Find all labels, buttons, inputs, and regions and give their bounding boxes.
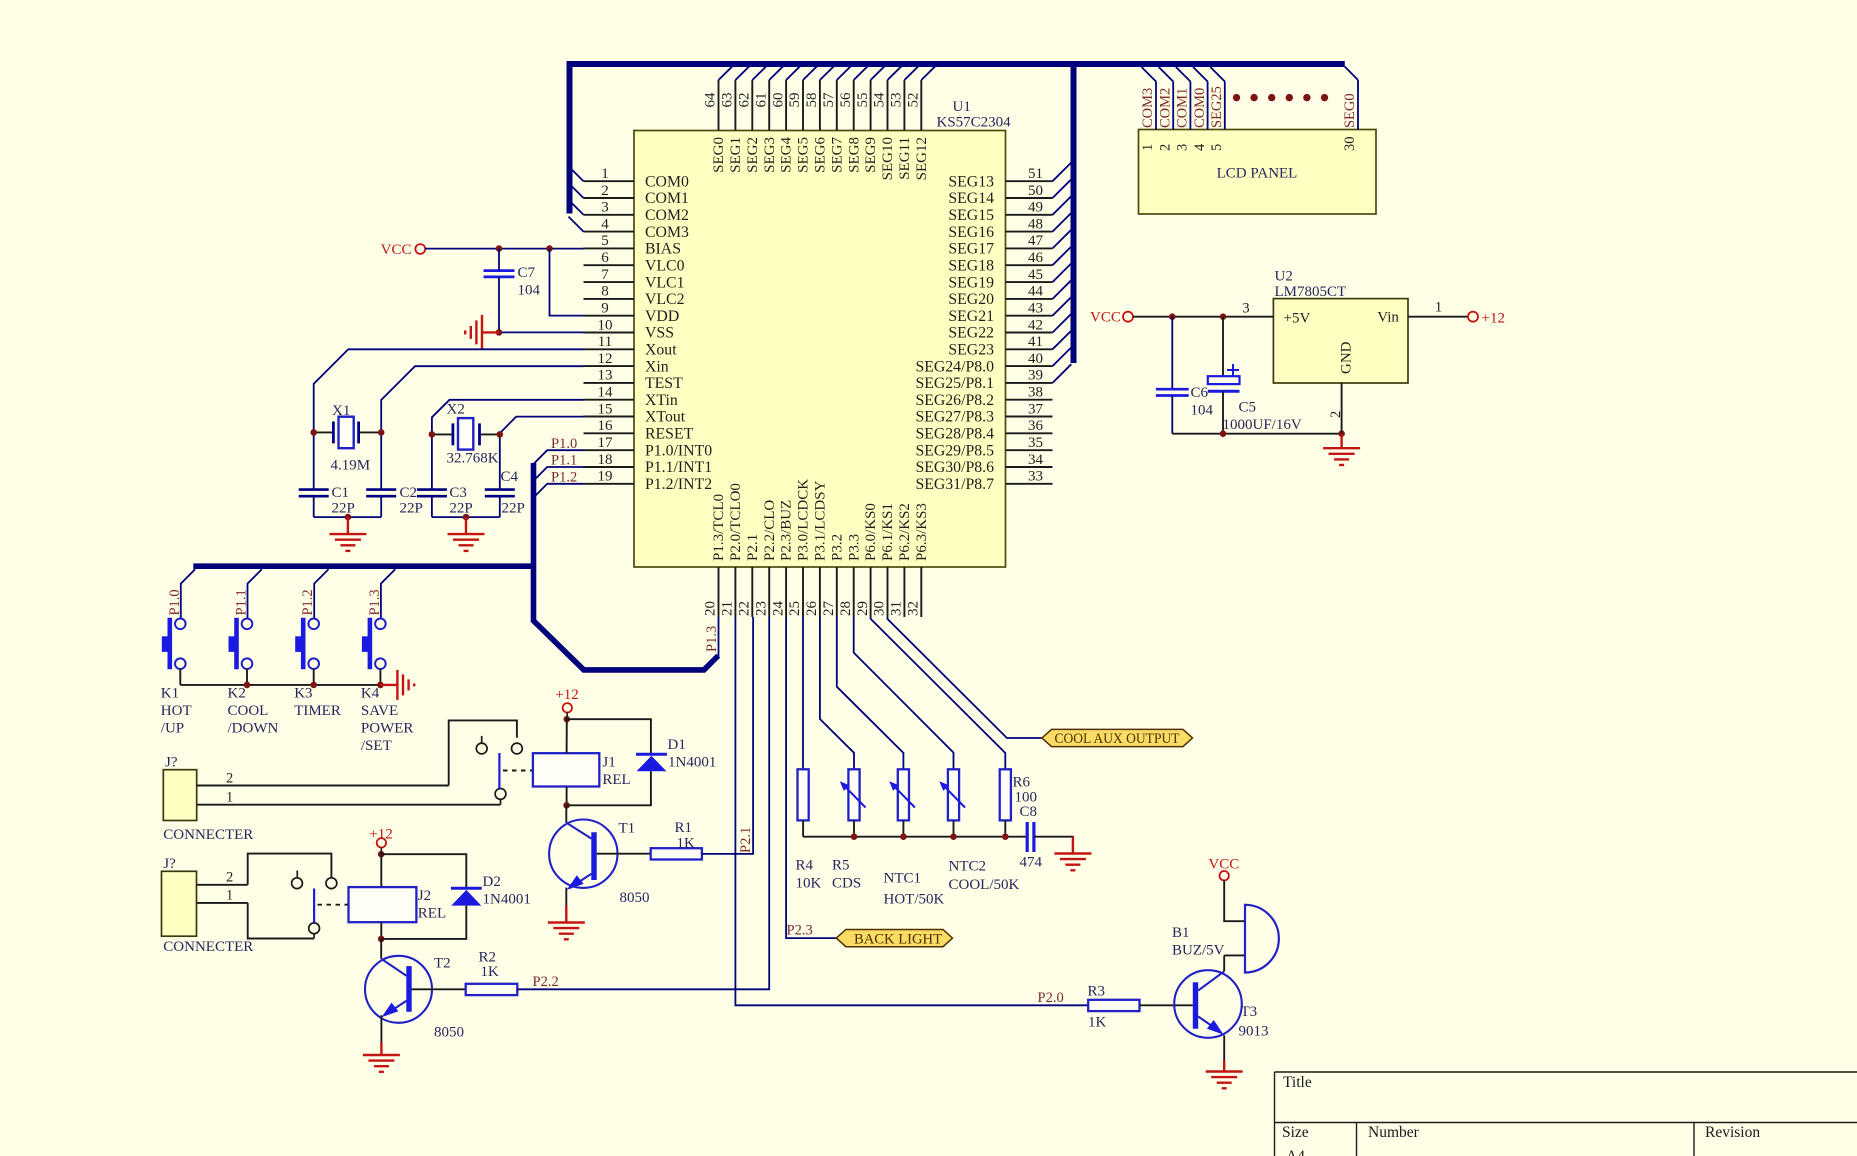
wire buzzer lower lead	[1224, 954, 1245, 956]
svg-text:SEG12: SEG12	[914, 137, 930, 180]
ground at T1	[548, 906, 585, 940]
svg-text:VCC: VCC	[381, 242, 412, 258]
svg-text:COM1: COM1	[1175, 88, 1191, 128]
wire T1 base to R1	[597, 853, 651, 855]
LCD pin 30 wire SEG0	[1357, 80, 1359, 130]
U1 pin 35 SEG29/P8.5	[1006, 449, 1053, 451]
svg-text:42: 42	[1028, 317, 1043, 333]
svg-text:15: 15	[598, 401, 613, 417]
svg-text:COM2: COM2	[645, 207, 689, 224]
svg-text:SEG26/P8.2: SEG26/P8.2	[915, 392, 994, 409]
svg-text:P2.1: P2.1	[745, 534, 761, 561]
svg-text:COM3: COM3	[645, 224, 689, 241]
svg-text:P1.1: P1.1	[234, 589, 250, 615]
svg-text:C7: C7	[518, 265, 536, 281]
wire T1 emitter to ground	[565, 888, 567, 906]
switch K1 push-button	[175, 619, 186, 630]
svg-text:50: 50	[1028, 183, 1043, 199]
U1 pin 48 SEG16	[1006, 231, 1053, 233]
svg-text:P2.2: P2.2	[533, 974, 559, 990]
U1 pin 47 SEG17	[1006, 247, 1053, 249]
svg-text:9013: 9013	[1239, 1024, 1269, 1040]
svg-text:1K: 1K	[677, 836, 696, 852]
diode D2 1N4001	[451, 887, 482, 890]
wire T1 collector	[565, 805, 567, 822]
wire pin 57 diagonal to bus	[837, 66, 851, 80]
svg-text:Size: Size	[1282, 1124, 1309, 1141]
wire R2 to P2.2 pin23	[517, 617, 769, 989]
U1 pin 26 P3.1/LCDSY	[819, 567, 821, 617]
wire COM3 diagonal to bus	[569, 217, 584, 232]
svg-text:SEG7: SEG7	[829, 137, 845, 173]
svg-text:VCC: VCC	[1090, 310, 1121, 326]
junction K3 common	[310, 682, 317, 689]
svg-text:SEG0: SEG0	[711, 137, 727, 173]
thermistor NTC1	[898, 769, 909, 820]
svg-text:19: 19	[598, 469, 613, 485]
svg-text:J?: J?	[163, 856, 176, 872]
wire SEG pin 39 diagonal to bus	[1053, 364, 1072, 383]
port flag COOL AUX OUTPUT	[1042, 729, 1193, 746]
svg-text:LCD PANEL: LCD PANEL	[1217, 166, 1298, 182]
svg-text:SEG27/P8.3: SEG27/P8.3	[915, 409, 994, 426]
svg-text:2: 2	[1328, 411, 1344, 418]
U1 pin 3 COM2	[584, 214, 635, 216]
voltage regulator U2 LM7805CT body	[1273, 299, 1408, 383]
svg-text:COOL AUX OUTPUT: COOL AUX OUTPUT	[1055, 731, 1180, 747]
svg-text:474: 474	[1020, 855, 1043, 871]
wire COM2 diagonal to bus	[569, 200, 584, 215]
svg-text:J?: J?	[165, 755, 178, 771]
wire P1.0 to bus	[534, 450, 584, 464]
svg-text:54: 54	[872, 92, 888, 108]
svg-text:1N4001: 1N4001	[668, 755, 716, 771]
svg-text:59: 59	[787, 93, 803, 108]
svg-text:RESET: RESET	[645, 426, 694, 443]
U1 pin 44 SEG20	[1006, 298, 1053, 300]
svg-text:8: 8	[601, 284, 609, 300]
svg-text:31: 31	[889, 601, 905, 616]
ground at C1 C2	[329, 517, 366, 551]
svg-text:K2: K2	[228, 686, 246, 702]
svg-text:KS57C2304: KS57C2304	[937, 115, 1012, 131]
capacitor C4	[485, 488, 515, 491]
svg-text:24: 24	[770, 601, 786, 617]
svg-text:P3.3: P3.3	[846, 534, 862, 561]
wire sensor 2 bottom lead	[853, 820, 855, 836]
svg-text:U1: U1	[953, 99, 971, 115]
svg-text:P6.2/KS2: P6.2/KS2	[897, 503, 913, 561]
wire pin28 to NTC2	[854, 617, 954, 769]
title block frame	[1275, 1072, 1857, 1156]
wire bus stub to K1	[181, 569, 195, 618]
relay J1 armature	[498, 753, 500, 789]
wire XTin	[432, 400, 584, 490]
svg-text:38: 38	[1028, 385, 1043, 401]
wire pin 62 diagonal to bus	[752, 66, 766, 80]
wire J2 coil bottom	[380, 922, 382, 939]
wire XTout	[500, 417, 584, 490]
svg-text:26: 26	[804, 601, 820, 617]
svg-text:R1: R1	[675, 820, 693, 836]
U1 pin 39 SEG25/P8.1	[1006, 382, 1053, 384]
svg-text:T1: T1	[619, 821, 636, 837]
switch contact J2 upper right	[326, 878, 337, 889]
wire +12 to D1 top	[567, 719, 651, 754]
wire sensor 1 bottom lead	[802, 820, 804, 836]
svg-text:23: 23	[753, 601, 769, 616]
svg-text:BIAS: BIAS	[645, 241, 681, 258]
svg-text:1K: 1K	[481, 964, 500, 980]
svg-text:SAVE: SAVE	[361, 703, 398, 719]
svg-text:GND: GND	[1339, 341, 1355, 374]
U1 pin 61 SEG3	[768, 80, 770, 131]
U1 pin 29 P6.0/KS0	[870, 567, 872, 617]
U1 pin 13 TEST	[584, 382, 635, 384]
wire bus stub to K4	[381, 569, 395, 618]
svg-text:104: 104	[1191, 403, 1214, 419]
junction C3-C4 ground	[463, 514, 470, 521]
svg-text:SEG3: SEG3	[762, 137, 778, 173]
wire VCC to BIAS pin	[425, 248, 583, 250]
svg-text:45: 45	[1028, 267, 1043, 283]
wire SEG pin 42 diagonal to bus	[1053, 314, 1072, 333]
bus top horizontal	[567, 61, 1345, 67]
svg-text:14: 14	[598, 385, 614, 401]
svg-text:COOL: COOL	[228, 703, 269, 719]
wire sensor 5 bottom lead	[1004, 820, 1006, 836]
svg-text:2: 2	[601, 183, 609, 199]
wire VDD branch	[550, 249, 584, 316]
svg-text:4.19M: 4.19M	[331, 458, 371, 474]
svg-text:COM0: COM0	[1192, 88, 1208, 128]
ground at VSS	[465, 315, 499, 350]
capacitor C1	[299, 488, 329, 491]
svg-text:U2: U2	[1275, 269, 1293, 285]
svg-text:P6.0/KS0: P6.0/KS0	[863, 503, 879, 561]
resistor R6 100	[1000, 769, 1011, 820]
svg-text:18: 18	[598, 452, 613, 468]
svg-text:VSS: VSS	[645, 325, 674, 342]
svg-text:T3: T3	[1241, 1004, 1258, 1020]
svg-text:SEG8: SEG8	[846, 137, 862, 173]
wire P1.1 to bus	[534, 467, 584, 481]
junction J2 bottom	[378, 936, 385, 943]
wire pin 58 diagonal to bus	[820, 66, 834, 80]
thermistor NTC2	[948, 769, 959, 820]
junction at C5	[1220, 313, 1227, 320]
U1 pin 41 SEG23	[1006, 348, 1053, 350]
wire pin26 to R5	[820, 617, 854, 769]
svg-text:3: 3	[1175, 144, 1191, 151]
svg-text:43: 43	[1028, 301, 1043, 317]
junction X1 right	[378, 429, 385, 436]
power port +12 at U2	[1468, 312, 1478, 322]
capacitor C6 104	[1171, 317, 1173, 390]
svg-text:SEG6: SEG6	[813, 137, 829, 173]
svg-text:R4: R4	[796, 858, 814, 874]
svg-text:21: 21	[720, 601, 736, 616]
svg-text:P1.2/INT2: P1.2/INT2	[645, 476, 712, 493]
svg-text:XTout: XTout	[645, 409, 686, 426]
wire T2 collector	[380, 939, 382, 959]
svg-text:SEG17: SEG17	[948, 241, 994, 258]
svg-text:Xout: Xout	[645, 342, 677, 359]
U1 pin 5 BIAS	[584, 247, 635, 249]
svg-text:+12: +12	[369, 827, 392, 843]
J? lower pin 1	[197, 902, 248, 904]
svg-text:44: 44	[1028, 284, 1044, 300]
junction +12 J1	[564, 716, 571, 723]
svg-text:4: 4	[601, 216, 609, 232]
svg-text:R3: R3	[1088, 984, 1106, 1000]
svg-text:REL: REL	[418, 906, 446, 922]
svg-text:4: 4	[1192, 143, 1208, 151]
svg-text:SEG24/P8.0: SEG24/P8.0	[915, 358, 994, 375]
svg-text:60: 60	[770, 93, 786, 108]
svg-text:Revision: Revision	[1705, 1124, 1760, 1141]
svg-text:10K: 10K	[796, 875, 822, 891]
svg-text:P2.2/CLO: P2.2/CLO	[762, 500, 778, 561]
svg-text:+12: +12	[555, 687, 578, 703]
svg-text:+12: +12	[1482, 311, 1505, 327]
svg-text:3: 3	[1242, 301, 1249, 317]
svg-text:COM1: COM1	[645, 190, 689, 207]
svg-text:C2: C2	[400, 485, 418, 501]
crystal X1	[314, 431, 334, 433]
svg-text:CDS: CDS	[832, 875, 861, 891]
svg-text:P1.2: P1.2	[300, 589, 316, 615]
svg-text:HOT/50K: HOT/50K	[884, 892, 945, 908]
svg-text:12: 12	[598, 351, 613, 367]
wire K2 bottom	[246, 669, 248, 685]
U1 pin 21 P2.0/TCLO0	[734, 567, 736, 617]
wire SEG pin 44 diagonal to bus	[1053, 280, 1072, 299]
diode D1 1N4001	[636, 753, 667, 756]
svg-text:P1.3/TCL0: P1.3/TCL0	[711, 494, 727, 561]
ellipsis dots between LCD pins	[1233, 94, 1240, 101]
svg-text:SEG1: SEG1	[728, 137, 744, 173]
svg-text:VDD: VDD	[645, 308, 679, 325]
svg-text:BACK LIGHT: BACK LIGHT	[854, 931, 942, 947]
svg-text:COOL/50K: COOL/50K	[949, 877, 1020, 893]
wire COM0 diagonal to bus	[569, 166, 584, 181]
svg-text:6: 6	[601, 250, 609, 266]
svg-text:D2: D2	[483, 874, 501, 890]
wire pin 54 diagonal to bus	[888, 66, 902, 80]
U1 pin 7 VLC1	[584, 281, 635, 283]
junction at VDD branch	[546, 245, 553, 252]
wire Xin	[381, 366, 583, 489]
U1 pin 42 SEG22	[1006, 332, 1053, 334]
resistor R3 1K	[1088, 1000, 1139, 1011]
svg-text:+5V: +5V	[1284, 311, 1311, 327]
svg-text:Title: Title	[1283, 1074, 1312, 1091]
svg-text:32.768K: 32.768K	[447, 451, 499, 467]
wire K3 bottom	[313, 669, 315, 685]
switch K3 push-button	[308, 619, 319, 630]
wire P1.2 to bus	[534, 484, 584, 498]
svg-text:P2.3/BUZ: P2.3/BUZ	[779, 500, 795, 561]
junction X2 right	[497, 431, 504, 438]
svg-text:SEG18: SEG18	[948, 257, 994, 274]
svg-text:SEG13: SEG13	[948, 173, 994, 190]
LCD pin 3 wire	[1189, 82, 1191, 130]
svg-text:SEG28/P8.4: SEG28/P8.4	[915, 426, 994, 443]
wire SEG pin 45 diagonal to bus	[1053, 263, 1072, 282]
U1 pin 1 COM0	[584, 180, 635, 182]
svg-text:SEG16: SEG16	[948, 224, 994, 241]
svg-text:C4: C4	[501, 469, 519, 485]
wire K1 bottom	[179, 669, 181, 685]
U1 pin 17 P1.0/INT0	[584, 449, 635, 451]
svg-text:VCC: VCC	[1208, 857, 1239, 873]
svg-text:22P: 22P	[502, 500, 525, 516]
svg-text:P1.1: P1.1	[551, 453, 577, 469]
svg-text:1N4001: 1N4001	[483, 892, 531, 908]
port flag BACK LIGHT	[836, 930, 952, 947]
svg-text:SEG0: SEG0	[1342, 93, 1358, 128]
svg-text:5: 5	[1209, 144, 1225, 151]
svg-text:HOT: HOT	[161, 703, 192, 719]
connector J? upper	[163, 770, 196, 821]
svg-text:CONNECTER: CONNECTER	[163, 827, 253, 843]
svg-text:33: 33	[1028, 469, 1043, 485]
svg-text:36: 36	[1028, 418, 1044, 434]
connector J? lower	[162, 871, 197, 936]
junction J1 coil bottom	[563, 802, 570, 809]
LCD pin 1 wire	[1155, 82, 1157, 130]
svg-text:C1: C1	[332, 485, 350, 501]
svg-text:SEG11: SEG11	[897, 137, 913, 180]
U1 pin 19 P1.2/INT2	[584, 483, 635, 485]
junction at VSS ground	[496, 329, 503, 336]
U1 pin 2 COM1	[584, 197, 635, 199]
switch contact J2 upper left	[292, 878, 303, 889]
svg-text:41: 41	[1028, 334, 1043, 350]
U1 pin 49 SEG15	[1006, 214, 1053, 216]
svg-text:VLC0: VLC0	[645, 257, 685, 274]
svg-text:SEG14: SEG14	[948, 190, 994, 207]
svg-text:J1: J1	[602, 755, 615, 771]
ground at T2	[363, 1042, 400, 1072]
svg-text:D1: D1	[668, 737, 686, 753]
transistor T3 9013	[1174, 970, 1242, 1038]
svg-text:T2: T2	[434, 956, 451, 972]
svg-text:22P: 22P	[332, 500, 355, 516]
svg-text:P1.3: P1.3	[704, 626, 720, 652]
wire J2 contact lower path	[248, 903, 314, 939]
J? upper pin 2	[197, 785, 449, 787]
svg-text:SEG25/P8.1: SEG25/P8.1	[915, 375, 994, 392]
svg-text:C3: C3	[449, 485, 467, 501]
transistor T2 8050	[365, 956, 432, 1023]
LCD pin 5 wire	[1224, 82, 1226, 130]
svg-text:22: 22	[737, 601, 753, 616]
svg-text:K4: K4	[361, 686, 380, 702]
U1 pin 45 SEG19	[1006, 281, 1053, 283]
U1 pin 64 SEG0	[718, 80, 720, 131]
svg-text:NTC2: NTC2	[949, 859, 987, 875]
wire pin25 to R4	[802, 617, 804, 769]
svg-text:POWER: POWER	[361, 721, 414, 737]
wire R3 to T3 base	[1140, 1004, 1193, 1006]
svg-text:/SET: /SET	[361, 738, 392, 754]
svg-text:64: 64	[703, 92, 719, 108]
svg-text:35: 35	[1028, 435, 1043, 451]
U1 pin 53 SEG11	[903, 80, 905, 131]
svg-text:1: 1	[1435, 300, 1442, 316]
wire C1-C2 ground link	[314, 516, 382, 518]
U1 pin 46 SEG18	[1006, 264, 1053, 266]
U1 pin 59 SEG5	[802, 80, 804, 131]
svg-text:SEG5: SEG5	[796, 137, 812, 173]
capacitor C3	[417, 488, 447, 491]
svg-text:P2.3: P2.3	[787, 923, 813, 939]
svg-text:51: 51	[1028, 166, 1043, 182]
svg-text:55: 55	[855, 93, 871, 108]
svg-text:P6.3/KS3: P6.3/KS3	[914, 503, 930, 561]
svg-text:SEG9: SEG9	[863, 137, 879, 173]
U1 pin 27 P3.2	[836, 567, 838, 617]
U1 pin 22 P2.1	[751, 567, 753, 617]
svg-text:K1: K1	[161, 686, 179, 702]
LCD pin 2 wire	[1172, 82, 1174, 130]
wire +12 to D2 top	[381, 854, 466, 888]
svg-text:R5: R5	[832, 858, 850, 874]
ground at C8	[1054, 837, 1091, 871]
U1 pin 52 SEG12	[920, 80, 922, 131]
wire J1 coil bottom	[566, 787, 568, 806]
U1 pin 40 SEG24/P8.0	[1006, 365, 1053, 367]
junction at C7 top	[496, 245, 503, 252]
wire SEG pin 41 diagonal to bus	[1053, 331, 1072, 350]
U1 pin 20 P1.3/TCL0	[718, 567, 720, 617]
svg-text:B1: B1	[1172, 925, 1190, 941]
junction K4 common	[377, 682, 384, 689]
wire bus stub to K3	[314, 569, 328, 618]
svg-text:X2: X2	[447, 402, 465, 418]
svg-text:30: 30	[1342, 137, 1358, 152]
svg-text:SEG2: SEG2	[745, 137, 761, 173]
relay J2 actuation dashed link	[318, 904, 349, 906]
wire COM1 diagonal to bus	[569, 183, 584, 198]
svg-text:X1: X1	[332, 403, 350, 419]
junction C5 ground rail	[1220, 430, 1227, 437]
svg-text:TEST: TEST	[645, 375, 683, 392]
junction NTC1 common	[900, 833, 907, 840]
svg-text:SEG19: SEG19	[948, 274, 994, 291]
capacitor C7	[484, 269, 515, 272]
svg-text:BUZ/5V: BUZ/5V	[1172, 943, 1225, 959]
svg-text:P2.1: P2.1	[738, 827, 754, 853]
switch contact J2 lower	[309, 923, 320, 934]
svg-text:C8: C8	[1020, 804, 1038, 820]
svg-text:1000UF/16V: 1000UF/16V	[1223, 417, 1302, 433]
U1 pin 9 VDD	[584, 315, 635, 317]
svg-text:34: 34	[1028, 452, 1044, 468]
wire pin27 to NTC1	[837, 617, 904, 769]
svg-text:61: 61	[753, 93, 769, 108]
wire T2 emitter to ground	[380, 1015, 382, 1042]
U1 pin 54 SEG10	[887, 80, 889, 131]
svg-text:53: 53	[889, 93, 905, 108]
svg-text:/DOWN: /DOWN	[228, 721, 279, 737]
svg-text:SEG30/P8.6: SEG30/P8.6	[915, 459, 994, 476]
U1 pin 36 SEG28/P8.4	[1006, 432, 1053, 434]
ground at T3	[1206, 1061, 1243, 1089]
svg-text:49: 49	[1028, 200, 1043, 216]
